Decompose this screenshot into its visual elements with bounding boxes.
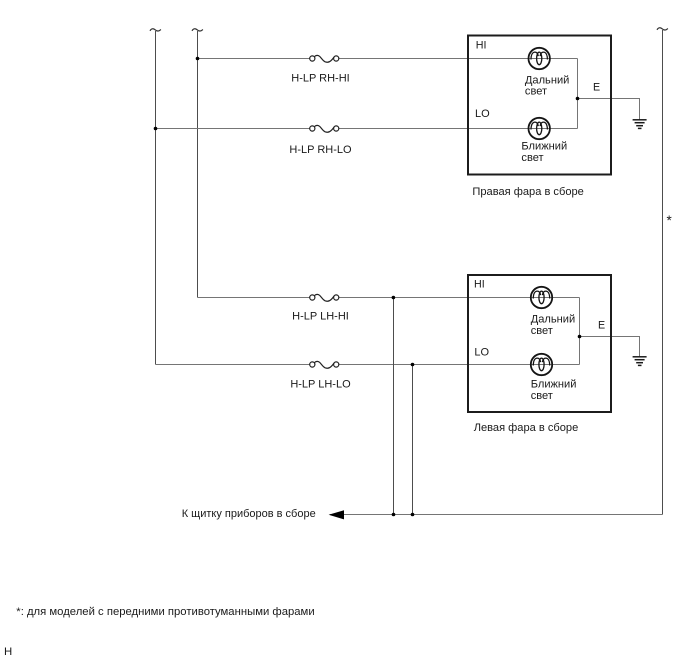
- page index H: [4, 646, 12, 658]
- connector wire in right lamp (bulb bus): [577, 59, 579, 129]
- junction LH-HI / D1: [392, 296, 396, 300]
- pin label E (right lamp): [593, 81, 600, 93]
- svg-text:LO: LO: [474, 346, 489, 358]
- svg-text:LO: LO: [475, 108, 490, 120]
- svg-text:свет: свет: [525, 86, 547, 98]
- fuse H-LP RH-LO: [310, 125, 339, 132]
- svg-text:Дальний: Дальний: [525, 75, 569, 87]
- svg-text:H-LP RH-LO: H-LP RH-LO: [289, 144, 352, 156]
- junction E1 node: [576, 97, 580, 101]
- box label Правая фара в сборе: [472, 186, 583, 198]
- svg-text:HI: HI: [474, 279, 485, 291]
- wire D1 (LH-HI drop to instrument panel): [393, 298, 395, 515]
- value label H-LP RH-HI: [291, 73, 349, 85]
- wire D2 (LH-LO drop to instrument panel): [412, 365, 414, 515]
- wire bottom bus to instrument panel: [330, 514, 663, 516]
- wire break marker at top of V2: [192, 29, 203, 31]
- value label H-LP RH-LO: [289, 144, 352, 156]
- svg-text:H-LP LH-HI: H-LP LH-HI: [292, 311, 349, 323]
- fuse H-LP LH-HI: [310, 294, 339, 301]
- bulb high beam left (Дальний свет): [531, 287, 552, 308]
- svg-text:E: E: [593, 81, 600, 93]
- wire H-LP RH-LO row: [156, 128, 578, 130]
- svg-text:H: H: [4, 646, 12, 658]
- label Дальний свет (left lamp): [531, 314, 575, 337]
- wire V3 (right feed, fog lamp models): [662, 30, 664, 515]
- junction V1 / RH-LO: [154, 127, 158, 131]
- svg-text:*: *: [667, 213, 673, 228]
- svg-text:HI: HI: [476, 40, 487, 52]
- wire H-LP LH-HI row: [198, 297, 580, 299]
- wire E1 to ground: [578, 99, 640, 120]
- pin label E (left lamp): [598, 319, 605, 331]
- svg-text:Левая фара в сборе: Левая фара в сборе: [474, 422, 579, 434]
- wire V2 (second battery feed): [197, 31, 199, 298]
- svg-text:свет: свет: [521, 152, 543, 164]
- pin label LO (right lamp): [475, 108, 490, 120]
- svg-text:свет: свет: [531, 325, 553, 337]
- pin label LO (left lamp): [474, 346, 489, 358]
- junction bottom bus / D2: [411, 513, 415, 517]
- wire H-LP RH-HI row: [198, 58, 578, 60]
- box right headlamp assembly: [468, 36, 611, 175]
- pin label HI (left lamp): [474, 279, 485, 291]
- junction LH-LO / D2: [411, 363, 415, 367]
- wire E2 to ground: [580, 337, 640, 357]
- label К щитку приборов в сборе: [182, 508, 316, 520]
- label Ближний свет (left lamp): [531, 379, 577, 402]
- svg-text:К щитку приборов в сборе: К щитку приборов в сборе: [182, 508, 316, 520]
- junction V2 / RH-HI: [196, 57, 200, 61]
- fuse H-LP RH-HI: [310, 55, 339, 62]
- junction bottom bus / D1: [392, 513, 396, 517]
- arrowhead to instrument panel: [329, 510, 344, 519]
- wire break marker at top of V3: [657, 28, 668, 30]
- bulb low beam right (Ближний свет): [529, 118, 550, 139]
- svg-text:Ближний: Ближний: [531, 379, 577, 391]
- wire break marker at top of V1: [150, 29, 161, 31]
- pin label HI (right lamp): [476, 40, 487, 52]
- fuse H-LP LH-LO: [310, 361, 339, 368]
- svg-text:Ближний: Ближний: [521, 141, 567, 153]
- bulb low beam left (Ближний свет): [531, 354, 552, 375]
- value label H-LP LH-LO: [290, 379, 351, 391]
- svg-text:E: E: [598, 319, 605, 331]
- svg-text:свет: свет: [531, 390, 553, 402]
- label Ближний свет (right lamp): [521, 141, 567, 164]
- svg-text:H-LP RH-HI: H-LP RH-HI: [291, 73, 349, 85]
- svg-text:H-LP LH-LO: H-LP LH-LO: [290, 379, 351, 391]
- bulb high beam right (Дальний свет): [529, 48, 550, 69]
- footnote marker * on V3: [667, 213, 673, 228]
- svg-text:Правая фара в сборе: Правая фара в сборе: [472, 186, 583, 198]
- box left headlamp assembly: [468, 275, 611, 412]
- label Дальний свет (right lamp): [525, 75, 569, 98]
- footnote: [16, 606, 314, 618]
- svg-text:Дальний: Дальний: [531, 314, 575, 326]
- ground G2: [633, 357, 647, 366]
- junction E2 node: [578, 335, 582, 339]
- connector wire in left lamp (bulb bus): [579, 298, 581, 365]
- value label H-LP LH-HI: [292, 311, 349, 323]
- wire H-LP LH-LO row: [156, 364, 580, 366]
- wire V1 (left battery feed): [155, 31, 157, 365]
- svg-text:*: для моделей с передними про: *: для моделей с передними противотуманн…: [16, 606, 314, 618]
- box label Левая фара в сборе: [474, 422, 579, 434]
- ground G1: [633, 120, 647, 129]
